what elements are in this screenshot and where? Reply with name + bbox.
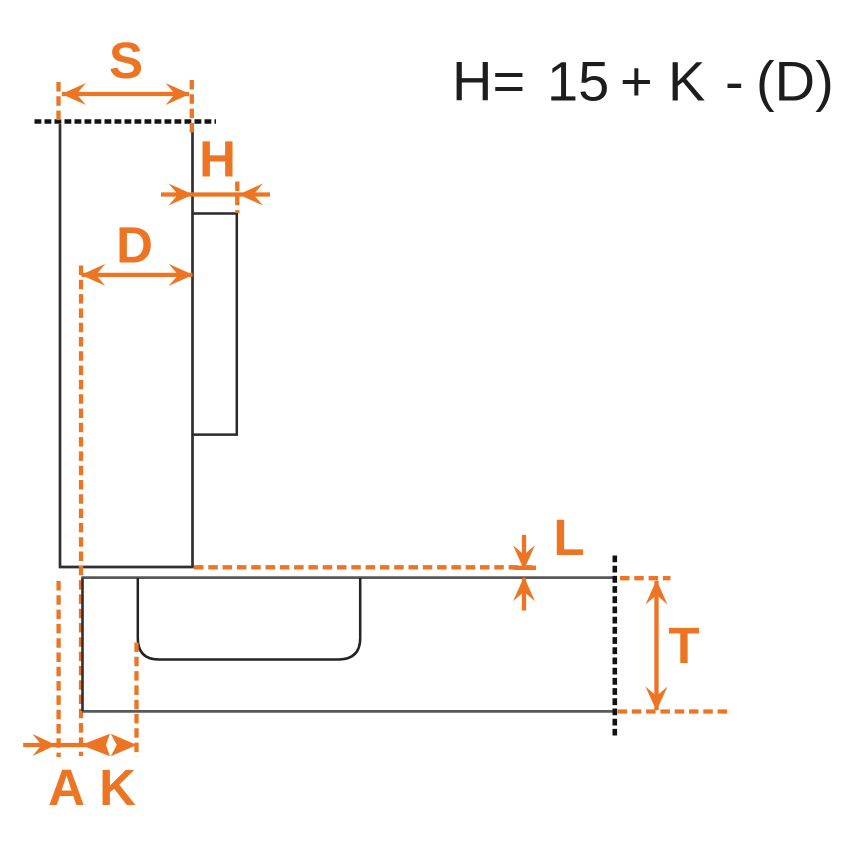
svg-text:(D): (D) — [756, 50, 834, 113]
door bottom edge — [82, 710, 616, 713]
H extension tick — [235, 182, 239, 214]
S extension tick left — [56, 82, 60, 122]
cabinet side panel outline — [59, 124, 194, 567]
svg-text:H=: H= — [452, 50, 525, 113]
svg-text:L: L — [553, 509, 584, 566]
svg-text:T: T — [668, 617, 699, 674]
svg-text:D: D — [116, 217, 153, 274]
dimension T arrow — [646, 580, 668, 711]
door left edge — [81, 578, 84, 711]
dashed orange tick T bottom — [618, 709, 731, 713]
svg-text:S: S — [109, 32, 143, 89]
svg-text:15: 15 — [547, 50, 609, 113]
formula H= 15 + K - (D) — [452, 50, 834, 113]
svg-text:K: K — [668, 50, 705, 113]
dimension K arrows — [81, 734, 137, 756]
A reference dashed line — [56, 581, 60, 757]
dimension L arrows — [513, 535, 536, 611]
S extension tick right — [190, 80, 194, 135]
svg-text:-: - — [725, 50, 744, 113]
svg-text:K: K — [99, 759, 136, 816]
mounting plate tab — [193, 214, 237, 435]
dimension H arrows — [161, 184, 270, 206]
dimension S arrow — [62, 83, 191, 105]
K reference dashed line — [134, 643, 138, 758]
dashed reference line top (cabinet front edge) — [35, 119, 217, 124]
svg-text:H: H — [199, 131, 236, 188]
D reference dashed line — [79, 266, 83, 757]
dimension A arrow — [23, 734, 96, 756]
dashed reference line door right — [612, 556, 617, 736]
dashed orange line door top reference — [194, 565, 536, 569]
dimension D arrow — [81, 264, 193, 286]
dashed orange tick T top — [620, 576, 671, 580]
door top edge — [81, 576, 614, 579]
svg-text:A: A — [48, 759, 85, 816]
svg-text:+: + — [620, 50, 653, 113]
hinge cup recess — [138, 578, 360, 660]
